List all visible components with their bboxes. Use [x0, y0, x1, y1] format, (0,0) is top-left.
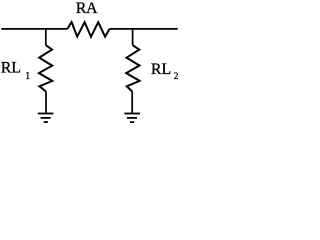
- svg-text:1: 1: [25, 71, 30, 82]
- resistor RA: [67, 22, 109, 37]
- resistor RL1: [39, 45, 52, 91]
- wire top right segment: [110, 28, 178, 30]
- svg-text:RL: RL: [151, 61, 171, 78]
- resistor RL2: [126, 45, 139, 91]
- ground left: [38, 114, 54, 123]
- svg-text:RA: RA: [76, 0, 98, 17]
- node B: right junction wire down: [132, 29, 134, 45]
- wire top left segment: [1, 28, 67, 30]
- wire RL2 bottom lead: [131, 92, 133, 114]
- wire RL1 bottom lead: [45, 92, 47, 114]
- svg-text:2: 2: [174, 72, 179, 82]
- ground right: [124, 114, 140, 123]
- svg-text:RL: RL: [1, 59, 21, 76]
- node A: left junction wire down: [45, 29, 47, 45]
